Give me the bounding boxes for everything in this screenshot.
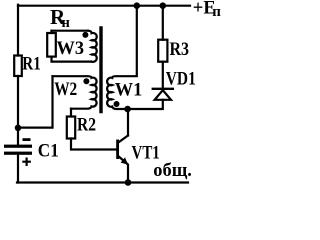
wire R2 top lead bbox=[70, 109, 72, 117]
transistor VT1 emitter arrow bbox=[121, 157, 128, 164]
polarity dot W2 bbox=[83, 78, 89, 84]
wire collector vertical bbox=[127, 109, 129, 136]
transistor VT1 emitter diagonal bbox=[119, 157, 128, 183]
svg-text:общ.: общ. bbox=[153, 161, 192, 181]
wire R2 bottom / base lead bbox=[71, 139, 116, 150]
diode VD1 cathode bar bbox=[153, 88, 173, 90]
polarity dot W3 bbox=[82, 32, 88, 38]
capacitor C1 minus sign bbox=[23, 138, 31, 141]
capacitor C1 plates bbox=[4, 145, 32, 148]
wire W3 loop top bbox=[52, 30, 89, 32]
svg-text:R3: R3 bbox=[170, 40, 190, 60]
resistor R2 bbox=[67, 117, 75, 139]
svg-text:W1: W1 bbox=[115, 81, 143, 101]
svg-text:п: п bbox=[212, 4, 221, 20]
wire bottom rail bbox=[17, 181, 188, 183]
resistor RH bbox=[47, 33, 56, 57]
resistor R3 bbox=[158, 40, 167, 62]
svg-text:C1: C1 bbox=[38, 141, 59, 161]
polarity dot W1 bbox=[114, 101, 120, 107]
winding W1 bbox=[107, 6, 137, 109]
svg-text:W3: W3 bbox=[57, 39, 85, 59]
wire W1 bottom to diode bbox=[128, 100, 163, 109]
svg-text:R2: R2 bbox=[77, 116, 96, 136]
svg-text:W2: W2 bbox=[54, 80, 77, 100]
core bar bbox=[99, 28, 102, 112]
wire left vertical bbox=[17, 5, 19, 145]
diode VD1 triangle bbox=[155, 90, 171, 100]
wire R3 top lead bbox=[162, 5, 164, 40]
node dot C1 junction bbox=[15, 125, 22, 132]
node dot top rail R3 bbox=[160, 2, 167, 9]
svg-text:R1: R1 bbox=[22, 55, 41, 75]
wire top rail bbox=[18, 5, 190, 7]
node dot emitter bottom bbox=[125, 179, 132, 186]
transistor VT1 collector diagonal bbox=[119, 136, 128, 143]
node dot collector junction bbox=[124, 106, 131, 113]
winding W2 bbox=[53, 76, 97, 109]
wire W3 loop stub top bbox=[50, 31, 52, 33]
node dot top rail W1 bbox=[134, 2, 141, 9]
wire C1 bottom lead bbox=[17, 155, 19, 183]
transistor VT1 base bar bbox=[116, 140, 119, 160]
resistor R1 bbox=[14, 56, 22, 77]
wire C1 junction to W2 top lead bbox=[18, 76, 53, 127]
label + of C1 bbox=[22, 158, 31, 167]
wire R3 to diode bbox=[162, 62, 164, 89]
svg-text:VD1: VD1 bbox=[166, 69, 196, 89]
winding W3 bbox=[88, 31, 97, 62]
wire W3 loop bottom bbox=[52, 57, 92, 62]
svg-text:н: н bbox=[62, 15, 70, 31]
